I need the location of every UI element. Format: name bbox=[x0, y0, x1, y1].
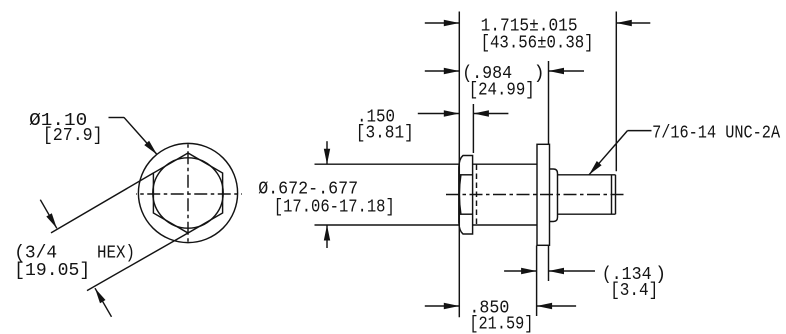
svg-text:[27.9]: [27.9] bbox=[43, 126, 103, 146]
svg-text:[3.81]: [3.81] bbox=[356, 124, 414, 144]
svg-text:): ) bbox=[534, 64, 545, 84]
svg-text:[17.06-17.18]: [17.06-17.18] bbox=[274, 198, 395, 218]
svg-text:[3.4]: [3.4] bbox=[610, 281, 658, 301]
svg-text:[24.99]: [24.99] bbox=[469, 81, 535, 101]
svg-text:HEX): HEX) bbox=[97, 244, 135, 264]
svg-text:[19.05]: [19.05] bbox=[14, 261, 90, 281]
svg-text:[21.59]: [21.59] bbox=[469, 315, 533, 334]
svg-text:7/16-14 UNC-2A: 7/16-14 UNC-2A bbox=[652, 124, 780, 144]
svg-text:[43.56±0.38]: [43.56±0.38] bbox=[481, 34, 594, 54]
svg-text:Ø.672-.677: Ø.672-.677 bbox=[258, 180, 358, 200]
